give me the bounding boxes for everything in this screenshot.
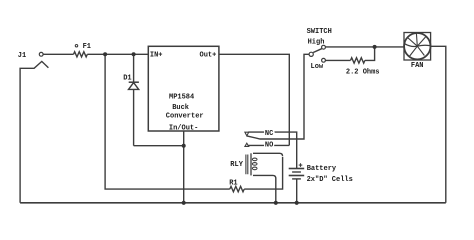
svg-text:In/Out-: In/Out- xyxy=(169,124,198,132)
svg-text:NO: NO xyxy=(265,141,273,149)
fuse F1 pin-1 marker circle xyxy=(75,45,77,47)
switch blade pole to High xyxy=(313,49,322,53)
svg-text:2x"D" Cells: 2x"D" Cells xyxy=(307,176,353,184)
fuse F1 zigzag element xyxy=(74,52,88,57)
svg-text:FAN: FAN xyxy=(411,62,424,70)
switch Low contact circle xyxy=(322,58,326,62)
wire High contact to fan feed xyxy=(325,46,404,48)
wire R1 to relay coil top lead xyxy=(244,157,282,189)
svg-text:NC: NC xyxy=(265,130,273,138)
relay NO contact line xyxy=(248,144,289,146)
relay RLY coil loop 1 xyxy=(252,158,257,161)
relay NC contact line to battery plus xyxy=(248,132,296,168)
connector J1 tip contact circle xyxy=(39,52,43,56)
relay RLY coil bar xyxy=(250,153,252,175)
svg-text:Battery: Battery xyxy=(307,165,337,173)
diode D1 triangle xyxy=(129,83,139,90)
junction dot ground at In/Out- xyxy=(182,201,186,205)
svg-text:Low: Low xyxy=(311,63,324,71)
wire J1 to F1 xyxy=(43,53,73,55)
wire F1 to IN+ pin of U1 xyxy=(87,53,148,55)
wire D1 branch vertical xyxy=(133,54,135,145)
svg-text:RLY: RLY xyxy=(230,161,243,169)
junction dot D1 bottom / In-Out- xyxy=(182,144,186,148)
junction dot D1 top xyxy=(132,52,136,56)
junction dot F1/input xyxy=(103,52,107,56)
diode D1 cathode bar xyxy=(129,81,139,83)
svg-text:SWITCH: SWITCH xyxy=(307,28,332,36)
battery B1 plate short xyxy=(292,171,301,173)
junction dot ground at battery xyxy=(295,201,299,205)
svg-text:Buck: Buck xyxy=(172,104,189,112)
wire D1 bottom to In/Out- node xyxy=(134,145,184,147)
resistor 2.2 Ohms zigzag xyxy=(351,58,365,63)
svg-text:2.2 Ohms: 2.2 Ohms xyxy=(346,68,380,76)
connector J1 body (jack with switch blade) xyxy=(20,61,48,202)
junction dot ground at coil xyxy=(274,201,278,205)
svg-text:MP1584: MP1584 xyxy=(169,94,194,102)
svg-text:R1: R1 xyxy=(229,180,237,188)
relay RLY coil loop 2 xyxy=(252,163,257,166)
svg-text:D1: D1 xyxy=(123,74,131,82)
relay coil bottom lead to ground rail xyxy=(253,175,276,202)
fan M1 housing square xyxy=(404,33,431,61)
svg-text:Converter: Converter xyxy=(166,113,204,121)
svg-text:J1: J1 xyxy=(18,52,26,60)
wire input drop to R1 (left tall vertical then across) xyxy=(105,54,230,189)
fan M1 blade circle xyxy=(404,33,430,59)
svg-text:High: High xyxy=(308,39,325,47)
relay armature common wire to switch pole xyxy=(247,54,309,139)
svg-text:Out+: Out+ xyxy=(200,52,217,60)
battery B1 plate short bottom xyxy=(292,178,301,180)
relay NC contact triangle xyxy=(245,132,249,136)
battery plus sign xyxy=(299,163,303,167)
wire fan output down right side xyxy=(431,46,446,203)
wire 2.2 Ohm resistor up to High node xyxy=(365,47,375,61)
relay RLY coil loop 3 xyxy=(252,167,257,170)
wire battery minus to ground rail xyxy=(296,179,298,203)
battery B1 plate long xyxy=(289,175,305,177)
switch pole contact circle xyxy=(309,52,313,56)
wire In/Out- pin down to ground rail xyxy=(183,131,185,203)
buck converter U1 MP1584 box xyxy=(148,46,219,131)
fan M1 spokes xyxy=(408,33,426,56)
battery B1 plate long top xyxy=(289,168,305,170)
ground return bottom rail xyxy=(20,202,446,204)
relay coil top lead xyxy=(253,153,283,156)
resistor R1 zigzag xyxy=(230,186,244,191)
switch High contact circle xyxy=(322,45,326,49)
svg-text:IN+: IN+ xyxy=(150,52,163,60)
wire Low contact to 2.2 Ohm resistor xyxy=(325,59,350,61)
junction dot High node xyxy=(373,45,377,49)
fan M1 blade curve xyxy=(405,44,430,47)
svg-text:F1: F1 xyxy=(83,43,91,51)
wire Out+ to relay NO contact xyxy=(219,54,289,145)
relay RLY coil core lines xyxy=(246,155,248,175)
relay NO contact triangle xyxy=(245,143,249,146)
